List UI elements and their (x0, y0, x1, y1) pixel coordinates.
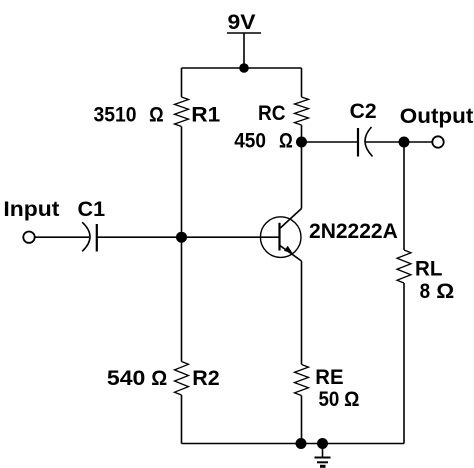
svg-text:Ω: Ω (279, 130, 293, 153)
svg-text:R1: R1 (191, 103, 220, 126)
svg-text:RE: RE (315, 366, 343, 389)
svg-text:C2: C2 (350, 100, 377, 123)
svg-text:C1: C1 (78, 198, 106, 221)
svg-text:9V: 9V (228, 11, 256, 34)
svg-text:Ω: Ω (344, 388, 359, 411)
svg-text:RL: RL (415, 257, 443, 280)
svg-text:2N2222A: 2N2222A (309, 220, 398, 243)
svg-text:RC: RC (258, 102, 286, 125)
svg-text:450: 450 (234, 130, 266, 153)
svg-text:3510: 3510 (94, 103, 137, 126)
svg-text:Input: Input (3, 198, 59, 221)
svg-text:Output: Output (400, 105, 474, 128)
svg-text:540: 540 (107, 367, 145, 390)
svg-text:50: 50 (319, 388, 340, 411)
svg-text:Ω: Ω (151, 367, 167, 390)
svg-text:R2: R2 (192, 367, 219, 390)
svg-text:8: 8 (420, 280, 431, 303)
svg-text:Ω: Ω (149, 103, 164, 126)
svg-text:Ω: Ω (436, 280, 454, 303)
